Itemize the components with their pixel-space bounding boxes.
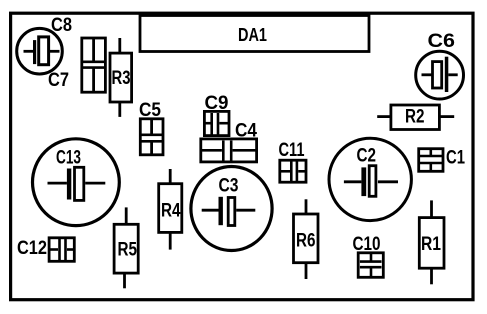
capacitor C7 <box>82 38 106 92</box>
C13 positive plate box <box>75 167 84 200</box>
C7 top lead wire <box>92 38 95 61</box>
C1 plate 1 <box>420 155 443 158</box>
resistor R1 <box>419 200 444 284</box>
svg-text:C9: C9 <box>205 93 229 114</box>
svg-text:C12: C12 <box>17 238 47 259</box>
svg-text:C11: C11 <box>279 140 305 161</box>
capacitor C3 <box>191 167 272 251</box>
C4 left stub wire <box>202 149 222 152</box>
C4 right stub wire <box>233 149 256 152</box>
C8 right lead wire <box>50 50 60 53</box>
C10 plate 2 <box>360 266 382 269</box>
svg-text:C5: C5 <box>139 100 161 121</box>
C7 plate 2 <box>83 66 105 69</box>
C6 left lead wire <box>422 73 433 76</box>
C12 plate 2 <box>64 239 67 261</box>
R1 bottom lead wire <box>430 268 433 284</box>
svg-text:C10: C10 <box>353 234 381 255</box>
C5 top lead <box>150 119 153 135</box>
C11 body rectangle <box>280 160 306 182</box>
resistor R3 <box>110 38 132 117</box>
C13 right lead wire <box>85 182 105 185</box>
R5 bottom lead wire <box>123 274 126 289</box>
C9 plate 2 <box>217 113 220 135</box>
R6 body rectangle <box>294 214 319 263</box>
C2 left lead wire <box>344 180 362 183</box>
C2 positive plate box <box>369 166 376 197</box>
resistor R6 <box>294 199 319 279</box>
capacitor C11 <box>280 160 306 182</box>
C12 plate 1 <box>58 239 61 261</box>
C8 negative plate bar <box>33 40 36 64</box>
svg-text:R4: R4 <box>161 201 181 222</box>
C3 negative plate bar <box>219 197 223 225</box>
R1 top lead wire <box>430 200 433 217</box>
C6 negative plate bar <box>445 57 449 92</box>
C11 right stub wire <box>298 170 305 173</box>
svg-text:C3: C3 <box>219 176 239 197</box>
capacitor C10 <box>358 253 383 277</box>
C12 right stub wire <box>67 248 74 251</box>
C11 left stub wire <box>281 170 291 173</box>
C8 positive plate box <box>39 37 49 65</box>
C7 plate 1 <box>83 60 105 63</box>
capacitor C6 <box>416 51 464 99</box>
C5 plate 1 <box>142 134 163 137</box>
svg-text:C1: C1 <box>446 148 465 169</box>
svg-text:DA1: DA1 <box>238 25 267 45</box>
R4 bottom lead wire <box>169 233 172 250</box>
R6 top lead wire <box>305 199 308 214</box>
IC DA1 <box>140 16 369 52</box>
resistor R5 <box>114 207 138 288</box>
C2 right lead wire <box>378 180 398 183</box>
C2 negative plate bar <box>361 167 366 196</box>
C3 right lead wire <box>236 209 255 212</box>
svg-text:R2: R2 <box>405 107 425 128</box>
C12 body rectangle <box>49 238 74 261</box>
capacitor C2 <box>329 138 411 220</box>
C11 plate 2 <box>296 161 299 182</box>
svg-text:C7: C7 <box>48 70 69 91</box>
C8 left lead wire <box>24 50 34 53</box>
svg-text:C6: C6 <box>428 31 456 52</box>
R6 bottom lead wire <box>305 263 308 280</box>
svg-text:R6: R6 <box>296 231 316 252</box>
C10 top lead <box>370 253 373 262</box>
C6 positive plate box <box>433 62 442 88</box>
C10 bottom lead <box>370 267 373 276</box>
C4 plate 2 <box>230 141 233 161</box>
resistor R4 <box>159 169 182 250</box>
svg-text:R3: R3 <box>112 68 131 89</box>
R1 body rectangle <box>419 218 444 269</box>
R2 body rectangle <box>391 105 440 130</box>
C5 bottom lead <box>150 141 153 154</box>
capacitor C5 <box>140 119 163 155</box>
C12 left stub wire <box>50 248 58 251</box>
svg-text:R5: R5 <box>118 240 138 261</box>
svg-text:C2: C2 <box>357 146 377 167</box>
capacitor C4 <box>201 139 257 162</box>
svg-text:C13: C13 <box>56 148 81 169</box>
C11 plate 1 <box>290 161 293 182</box>
C9 body rectangle <box>204 111 229 135</box>
C10 plate 1 <box>360 260 382 263</box>
svg-text:R1: R1 <box>421 234 441 255</box>
R3 bottom lead wire <box>118 103 121 117</box>
C3 positive plate box <box>228 198 235 226</box>
C6 right lead wire <box>448 73 457 76</box>
C9 left stub wire <box>205 122 211 125</box>
C7 bottom lead wire <box>92 68 95 92</box>
R2 right lead wire <box>440 115 454 118</box>
svg-text:C8: C8 <box>51 15 72 36</box>
C3 left lead wire <box>202 209 219 212</box>
capacitor C8 <box>17 28 63 74</box>
capacitor C9 <box>204 111 229 135</box>
R5 body rectangle <box>114 224 138 273</box>
capacitor C1 <box>419 149 443 172</box>
C3 body circle <box>191 167 272 251</box>
capacitor C12 <box>49 238 74 261</box>
C1 bottom lead <box>429 163 432 171</box>
R3 top lead wire <box>118 38 121 53</box>
R3 body rectangle <box>110 53 132 102</box>
C2 body circle <box>329 138 411 220</box>
C1 top lead <box>429 149 432 156</box>
resistor R2 <box>377 105 454 130</box>
R5 top lead wire <box>125 207 128 224</box>
C8 body circle <box>17 28 63 74</box>
C7 body rectangle <box>82 38 106 92</box>
R2 left lead wire <box>377 115 390 118</box>
C5 body rectangle <box>140 119 163 155</box>
C13 body circle <box>33 139 120 226</box>
capacitor C13 <box>33 139 120 226</box>
R4 top lead wire <box>169 169 172 184</box>
C4 body rectangle <box>201 139 257 162</box>
C9 plate 1 <box>210 113 213 135</box>
C9 right stub wire <box>219 122 228 125</box>
C13 left lead wire <box>48 182 67 185</box>
C1 body rectangle <box>419 149 443 172</box>
C13 negative plate bar <box>67 169 71 200</box>
C1 plate 2 <box>420 162 443 165</box>
C6 body circle <box>416 51 464 99</box>
svg-text:C4: C4 <box>235 121 257 142</box>
C10 body rectangle <box>358 253 383 277</box>
C5 plate 2 <box>142 140 163 143</box>
R4 body rectangle <box>159 184 182 233</box>
C4 plate 1 <box>222 141 225 161</box>
